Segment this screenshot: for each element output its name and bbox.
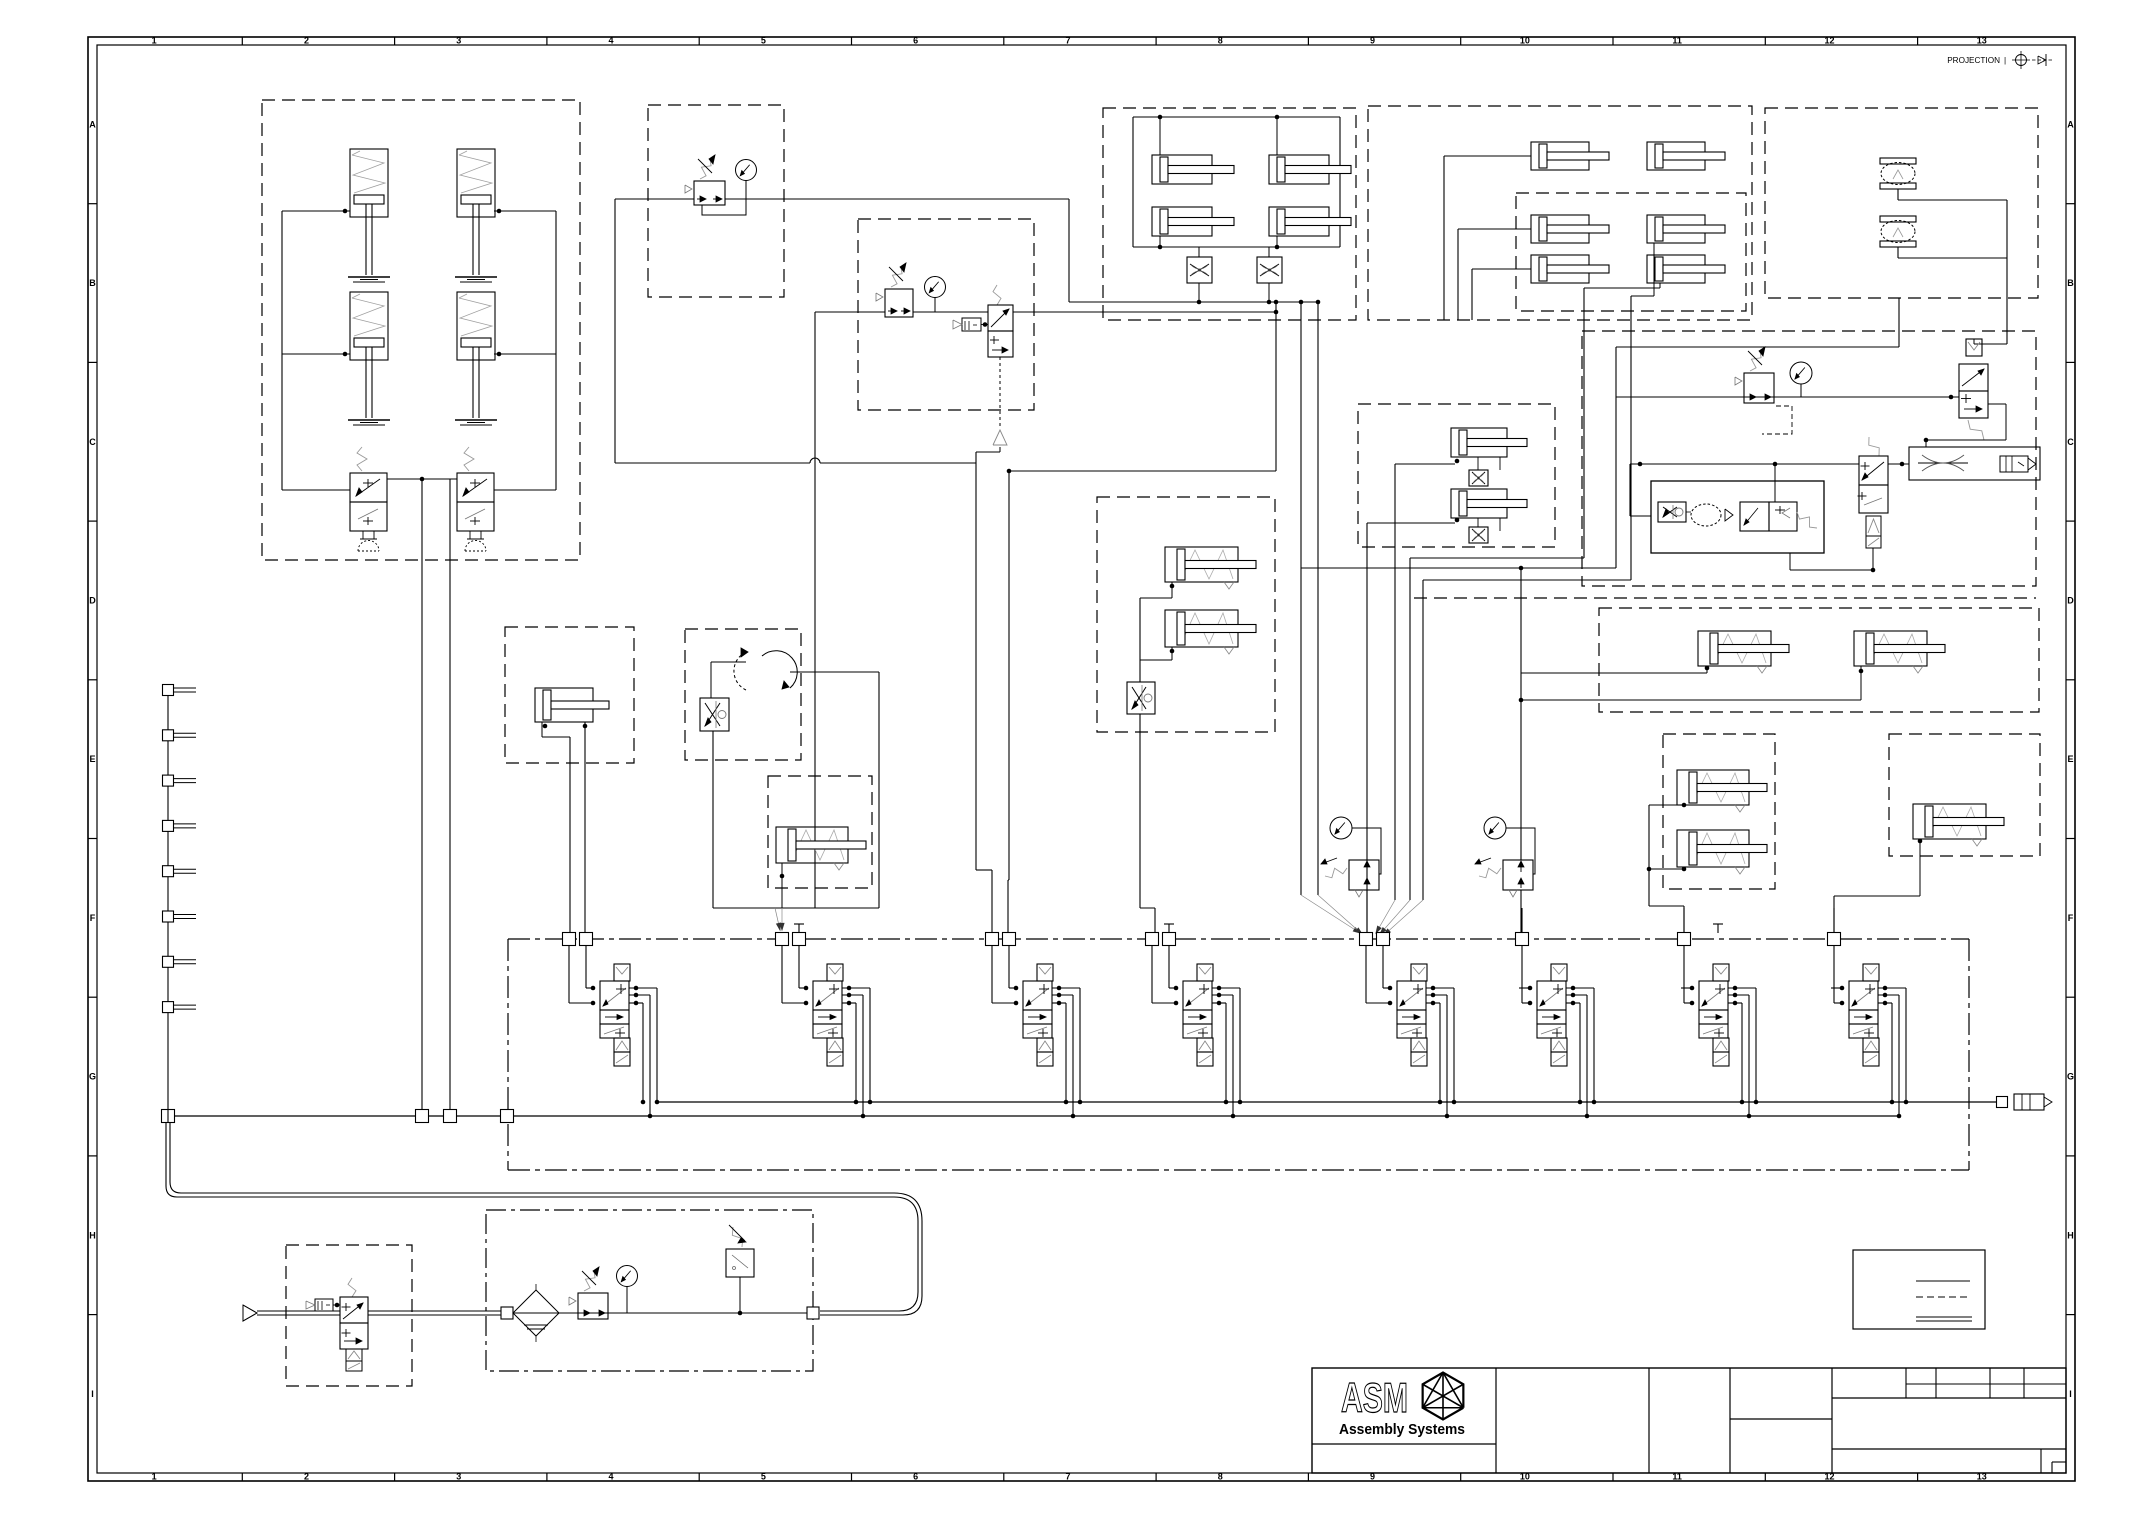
svg-text:3: 3: [456, 1472, 461, 1482]
svg-text:D: D: [2067, 595, 2074, 605]
svg-text:H: H: [89, 1230, 96, 1240]
svg-text:5: 5: [761, 36, 766, 46]
svg-text:6: 6: [913, 36, 918, 46]
svg-text:G: G: [2067, 1072, 2074, 1082]
svg-text:E: E: [89, 754, 95, 764]
svg-text:13: 13: [1977, 36, 1987, 46]
svg-text:G: G: [89, 1072, 96, 1082]
svg-text:3: 3: [456, 36, 461, 46]
svg-text:12: 12: [1824, 36, 1834, 46]
svg-text:C: C: [89, 437, 96, 447]
svg-text:6: 6: [913, 1472, 918, 1482]
svg-text:2: 2: [304, 36, 309, 46]
svg-text:H: H: [2067, 1230, 2074, 1240]
svg-text:F: F: [90, 913, 96, 923]
svg-text:I: I: [2069, 1389, 2072, 1399]
svg-text:F: F: [2068, 913, 2074, 923]
svg-text:A: A: [2067, 119, 2074, 129]
svg-text:A: A: [89, 119, 96, 129]
svg-text:I: I: [91, 1389, 94, 1399]
svg-text:4: 4: [609, 36, 614, 46]
svg-text:5: 5: [761, 1472, 766, 1482]
svg-text:7: 7: [1065, 1472, 1070, 1482]
svg-text:ASM: ASM: [1341, 1374, 1408, 1421]
svg-text:1: 1: [152, 1472, 157, 1482]
svg-text:Assembly Systems: Assembly Systems: [1339, 1421, 1465, 1438]
svg-text:4: 4: [609, 1472, 614, 1482]
svg-text:7: 7: [1065, 36, 1070, 46]
svg-text:2: 2: [304, 1472, 309, 1482]
svg-text:E: E: [2067, 754, 2073, 764]
svg-text:1: 1: [152, 36, 157, 46]
svg-text:B: B: [89, 278, 96, 288]
svg-text:10: 10: [1520, 36, 1530, 46]
svg-text:D: D: [89, 595, 96, 605]
svg-text:C: C: [2067, 437, 2074, 447]
svg-text:PROJECTION: PROJECTION: [1947, 56, 2000, 65]
svg-text:11: 11: [1672, 36, 1682, 46]
svg-text:8: 8: [1218, 1472, 1223, 1482]
svg-text:9: 9: [1370, 36, 1375, 46]
svg-text:8: 8: [1218, 36, 1223, 46]
svg-text:B: B: [2067, 278, 2074, 288]
svg-text:|: |: [2004, 56, 2006, 65]
